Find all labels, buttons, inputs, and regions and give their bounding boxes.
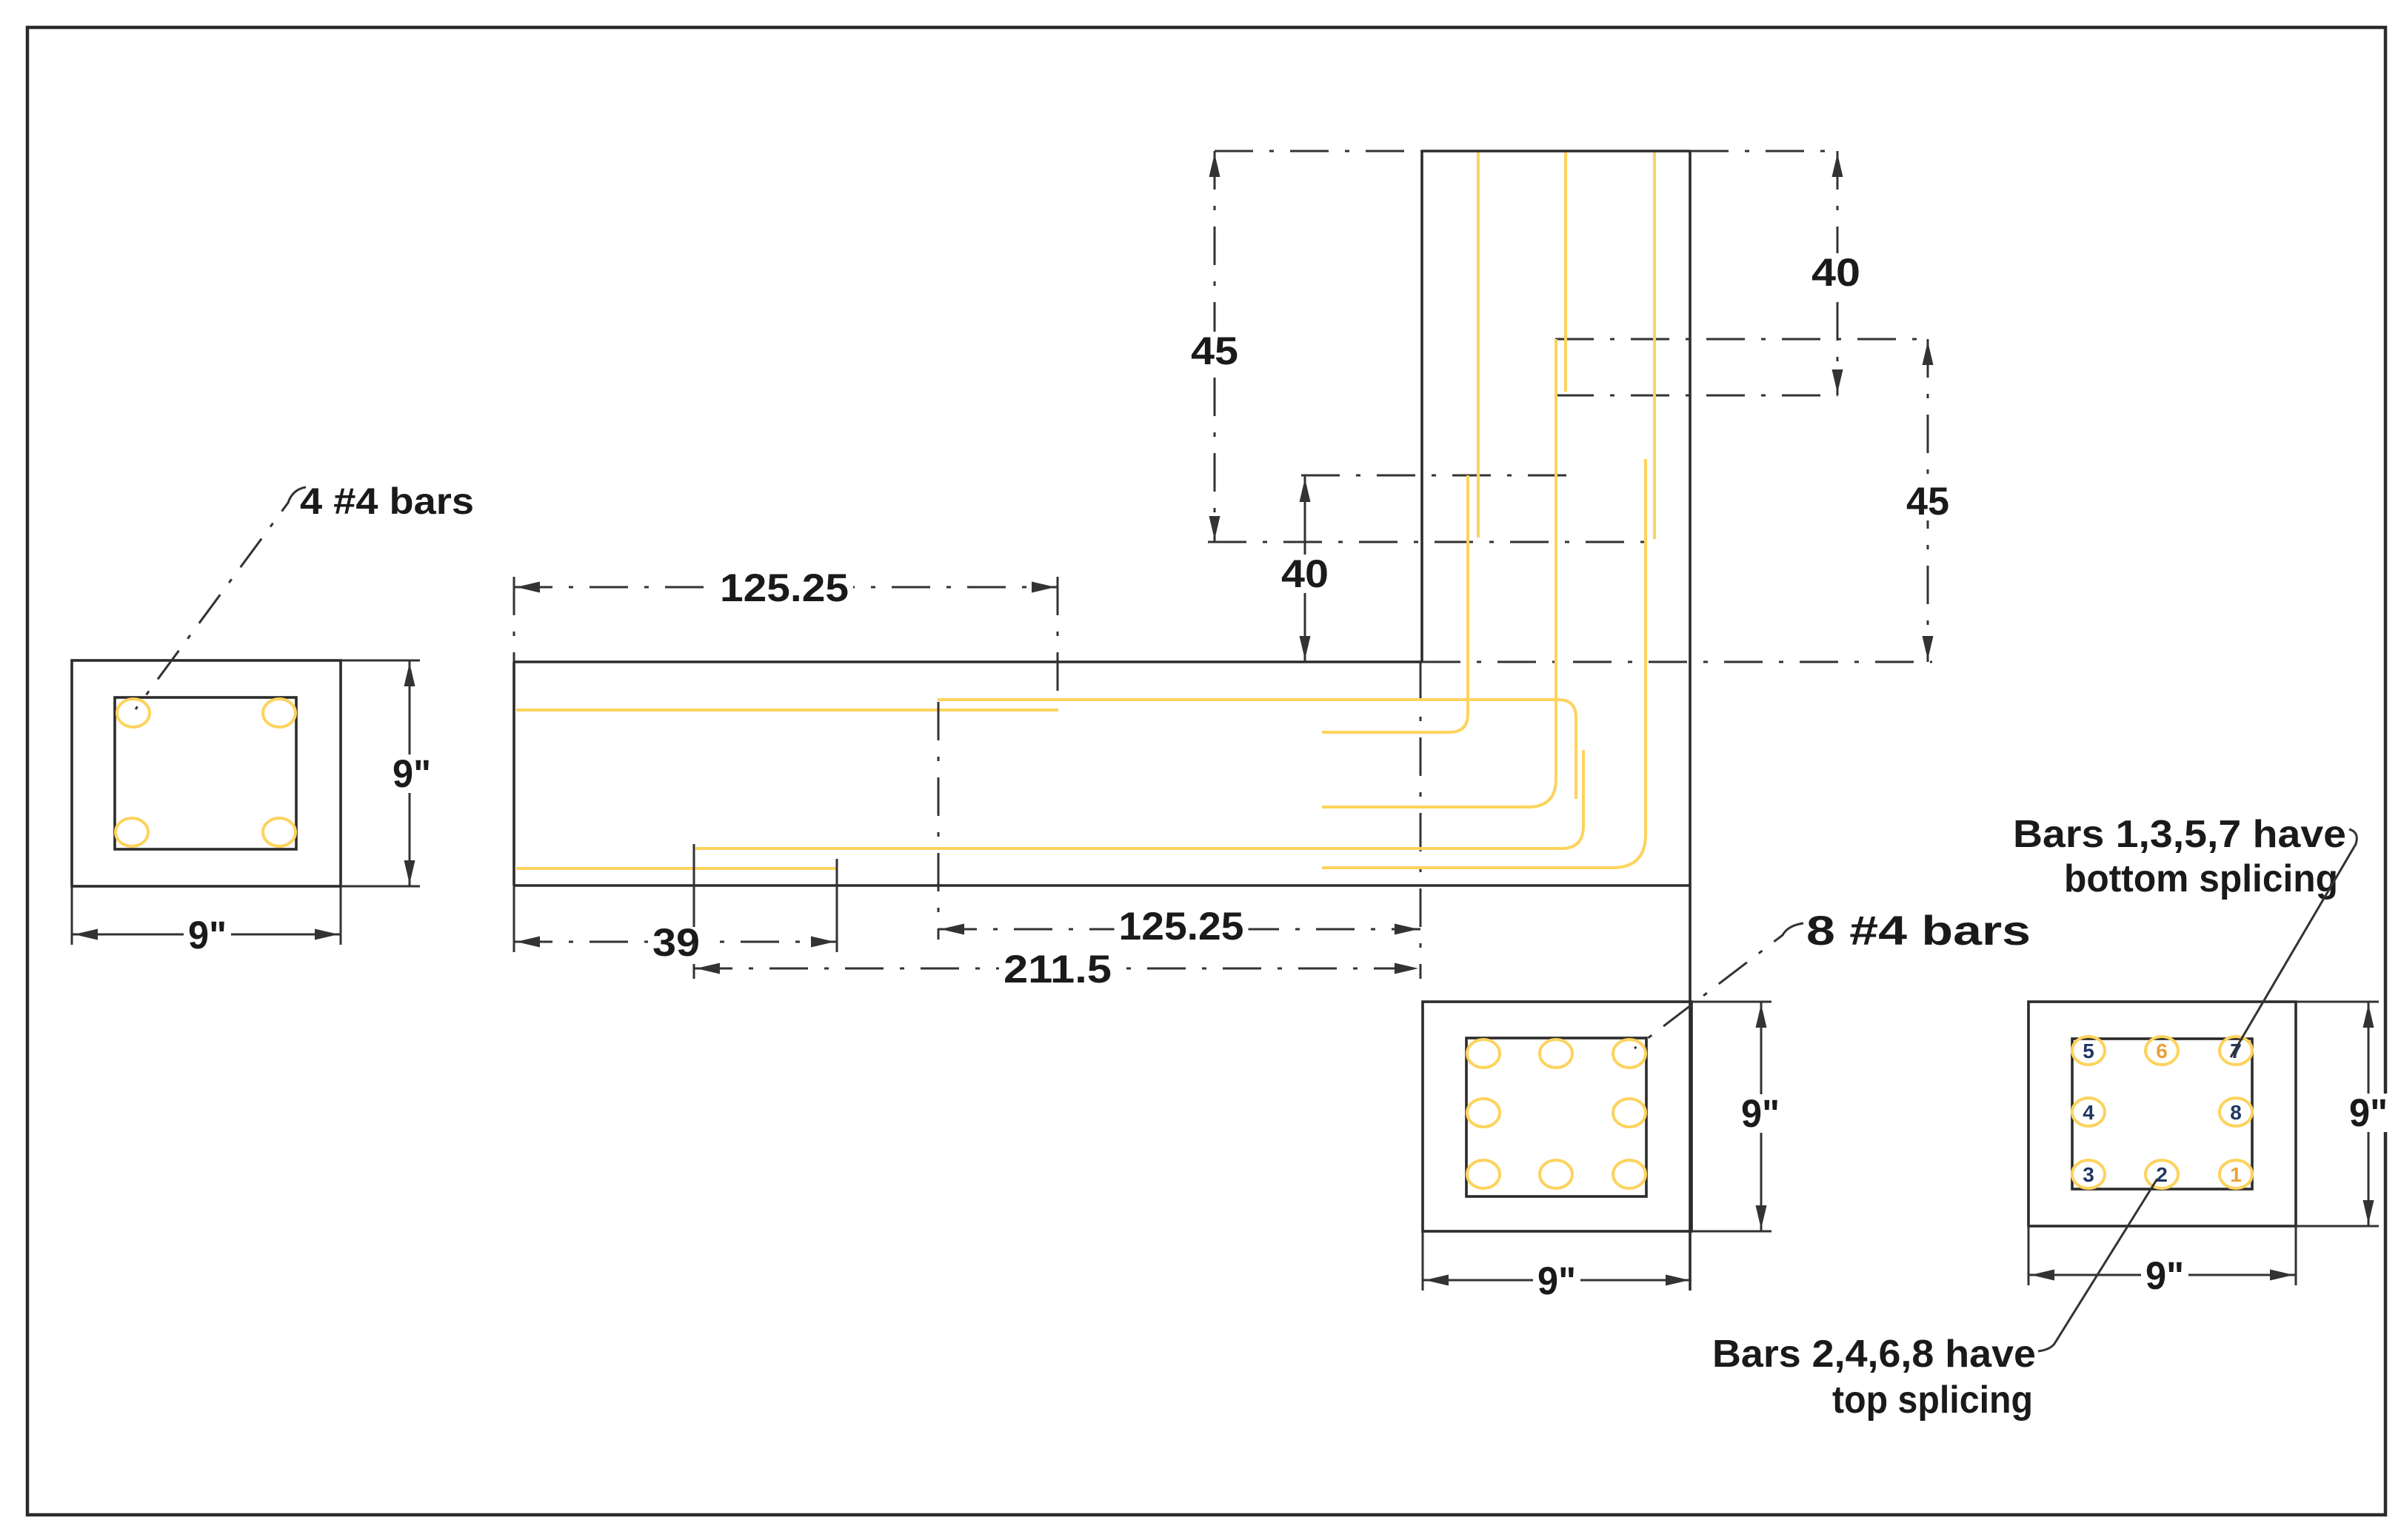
left section stirrup	[115, 697, 296, 849]
column right bar hook into beam	[1322, 459, 1646, 868]
beam outline	[514, 660, 1422, 663]
column left bar (splice) with hook	[1322, 475, 1468, 732]
right section 9" horizontal dimension	[2028, 1226, 2030, 1285]
left section corner bars	[117, 699, 150, 727]
svg-text:bottom splicing: bottom splicing	[2064, 857, 2338, 900]
middle section outer square	[1423, 1002, 1692, 1231]
beam bottom bar (original)	[516, 867, 836, 870]
dash-dot bar cutoff line y=534	[1555, 395, 1837, 397]
svg-text:9": 9"	[2349, 1091, 2388, 1135]
svg-text:9": 9"	[2145, 1254, 2184, 1298]
svg-text:Bars 2,4,6,8 have: Bars 2,4,6,8 have	[1712, 1333, 2036, 1376]
extension line splice bar start x=1267	[938, 702, 940, 940]
svg-text:top splicing: top splicing	[1832, 1379, 2033, 1422]
dimension 125.25 top	[514, 586, 1058, 589]
column left bar (original)	[1477, 153, 1480, 538]
bar 3	[2072, 1160, 2105, 1188]
bar 8	[2220, 1098, 2252, 1126]
dash-dot extension of column top, right side	[1690, 150, 1837, 153]
right section stirrup	[2072, 1039, 2252, 1189]
bar 7	[2220, 1037, 2252, 1065]
dimension 211.5	[694, 968, 1420, 970]
column right bar (original)	[1653, 153, 1656, 539]
right section 9" vertical dimension	[2296, 1001, 2379, 1003]
svg-text:125.25: 125.25	[720, 566, 849, 610]
beam top bar (original)	[516, 709, 1058, 712]
middle section 9" horizontal dimension	[1422, 1231, 1424, 1290]
left section 9" horizontal dimension	[71, 886, 73, 945]
left section 9" vertical dimension	[341, 660, 420, 662]
svg-text:9": 9"	[188, 914, 227, 957]
column middle bar (original)	[1564, 153, 1567, 392]
middle section 9" vertical dimension	[1692, 1001, 1771, 1003]
svg-text:40: 40	[1811, 251, 1860, 295]
bar 2	[2145, 1160, 2178, 1188]
leader to middle section bar	[1634, 923, 1803, 1048]
extension line beam left bottom	[513, 885, 515, 952]
extension line top bar end x=1428	[1057, 577, 1059, 707]
svg-text:9": 9"	[1741, 1092, 1780, 1136]
svg-text:9": 9"	[1537, 1259, 1576, 1303]
bar 6	[2145, 1037, 2178, 1065]
svg-text:2: 2	[2156, 1163, 2168, 1186]
bar 5	[2072, 1037, 2105, 1065]
svg-text:4: 4	[2083, 1101, 2094, 1124]
dash-dot splice start line y=458	[1555, 338, 1932, 341]
extension line beam left top	[513, 577, 515, 662]
dimension 125.25 bottom	[938, 928, 1420, 931]
svg-text:6: 6	[2156, 1039, 2168, 1062]
svg-text:8 #4 bars: 8 #4 bars	[1806, 907, 2031, 954]
middle section stirrup	[1466, 1038, 1646, 1196]
bar 1	[2220, 1160, 2252, 1188]
svg-text:45: 45	[1906, 480, 1949, 523]
column middle bar (splice) with hook	[1322, 339, 1556, 807]
svg-text:45: 45	[1191, 329, 1238, 373]
leader to corner bar	[136, 487, 306, 709]
dimension 40 left	[1304, 476, 1306, 662]
svg-text:Bars 1,3,5,7 have: Bars 1,3,5,7 have	[2013, 813, 2346, 856]
dimension 40 right	[1837, 151, 1839, 395]
dimension 45 left	[1214, 151, 1216, 542]
extension line splice bottom bar start x=937	[693, 844, 695, 888]
column hidden centerline through beam	[1420, 662, 1422, 979]
dash-dot bar cutoff line y=732	[1208, 541, 1645, 543]
right section outer square	[2028, 1002, 2296, 1226]
middle section bars (8)	[1467, 1039, 1500, 1068]
svg-text:1: 1	[2230, 1163, 2242, 1186]
dimension 39	[514, 941, 837, 943]
beam top bar (splice) hooked down into joint	[938, 700, 1576, 799]
svg-text:39: 39	[652, 921, 700, 965]
dash-dot splice start line y=642	[1301, 475, 1570, 477]
dash-dot beam-top extension through joint to right	[1422, 661, 1932, 663]
bar 4	[2072, 1098, 2105, 1126]
svg-text:125.25: 125.25	[1119, 905, 1244, 948]
svg-text:8: 8	[2230, 1101, 2242, 1124]
column outline	[1422, 150, 1690, 153]
extension line bottom bar end x=1130	[836, 859, 838, 952]
svg-text:9": 9"	[393, 752, 431, 796]
beam bottom bar (splice) hooked up into joint	[695, 750, 1583, 848]
dash-dot extension of column top, left side	[1215, 150, 1422, 153]
svg-text:4 #4 bars: 4 #4 bars	[300, 481, 474, 522]
svg-text:40: 40	[1281, 552, 1329, 596]
left section outer square	[72, 660, 341, 886]
svg-text:211.5: 211.5	[1004, 948, 1112, 991]
svg-text:3: 3	[2083, 1163, 2094, 1186]
svg-text:5: 5	[2083, 1039, 2094, 1062]
leader to bar 7	[2231, 829, 2357, 1057]
dimension 45 right	[1927, 339, 1929, 662]
leader to bar 2	[2038, 1179, 2157, 1351]
